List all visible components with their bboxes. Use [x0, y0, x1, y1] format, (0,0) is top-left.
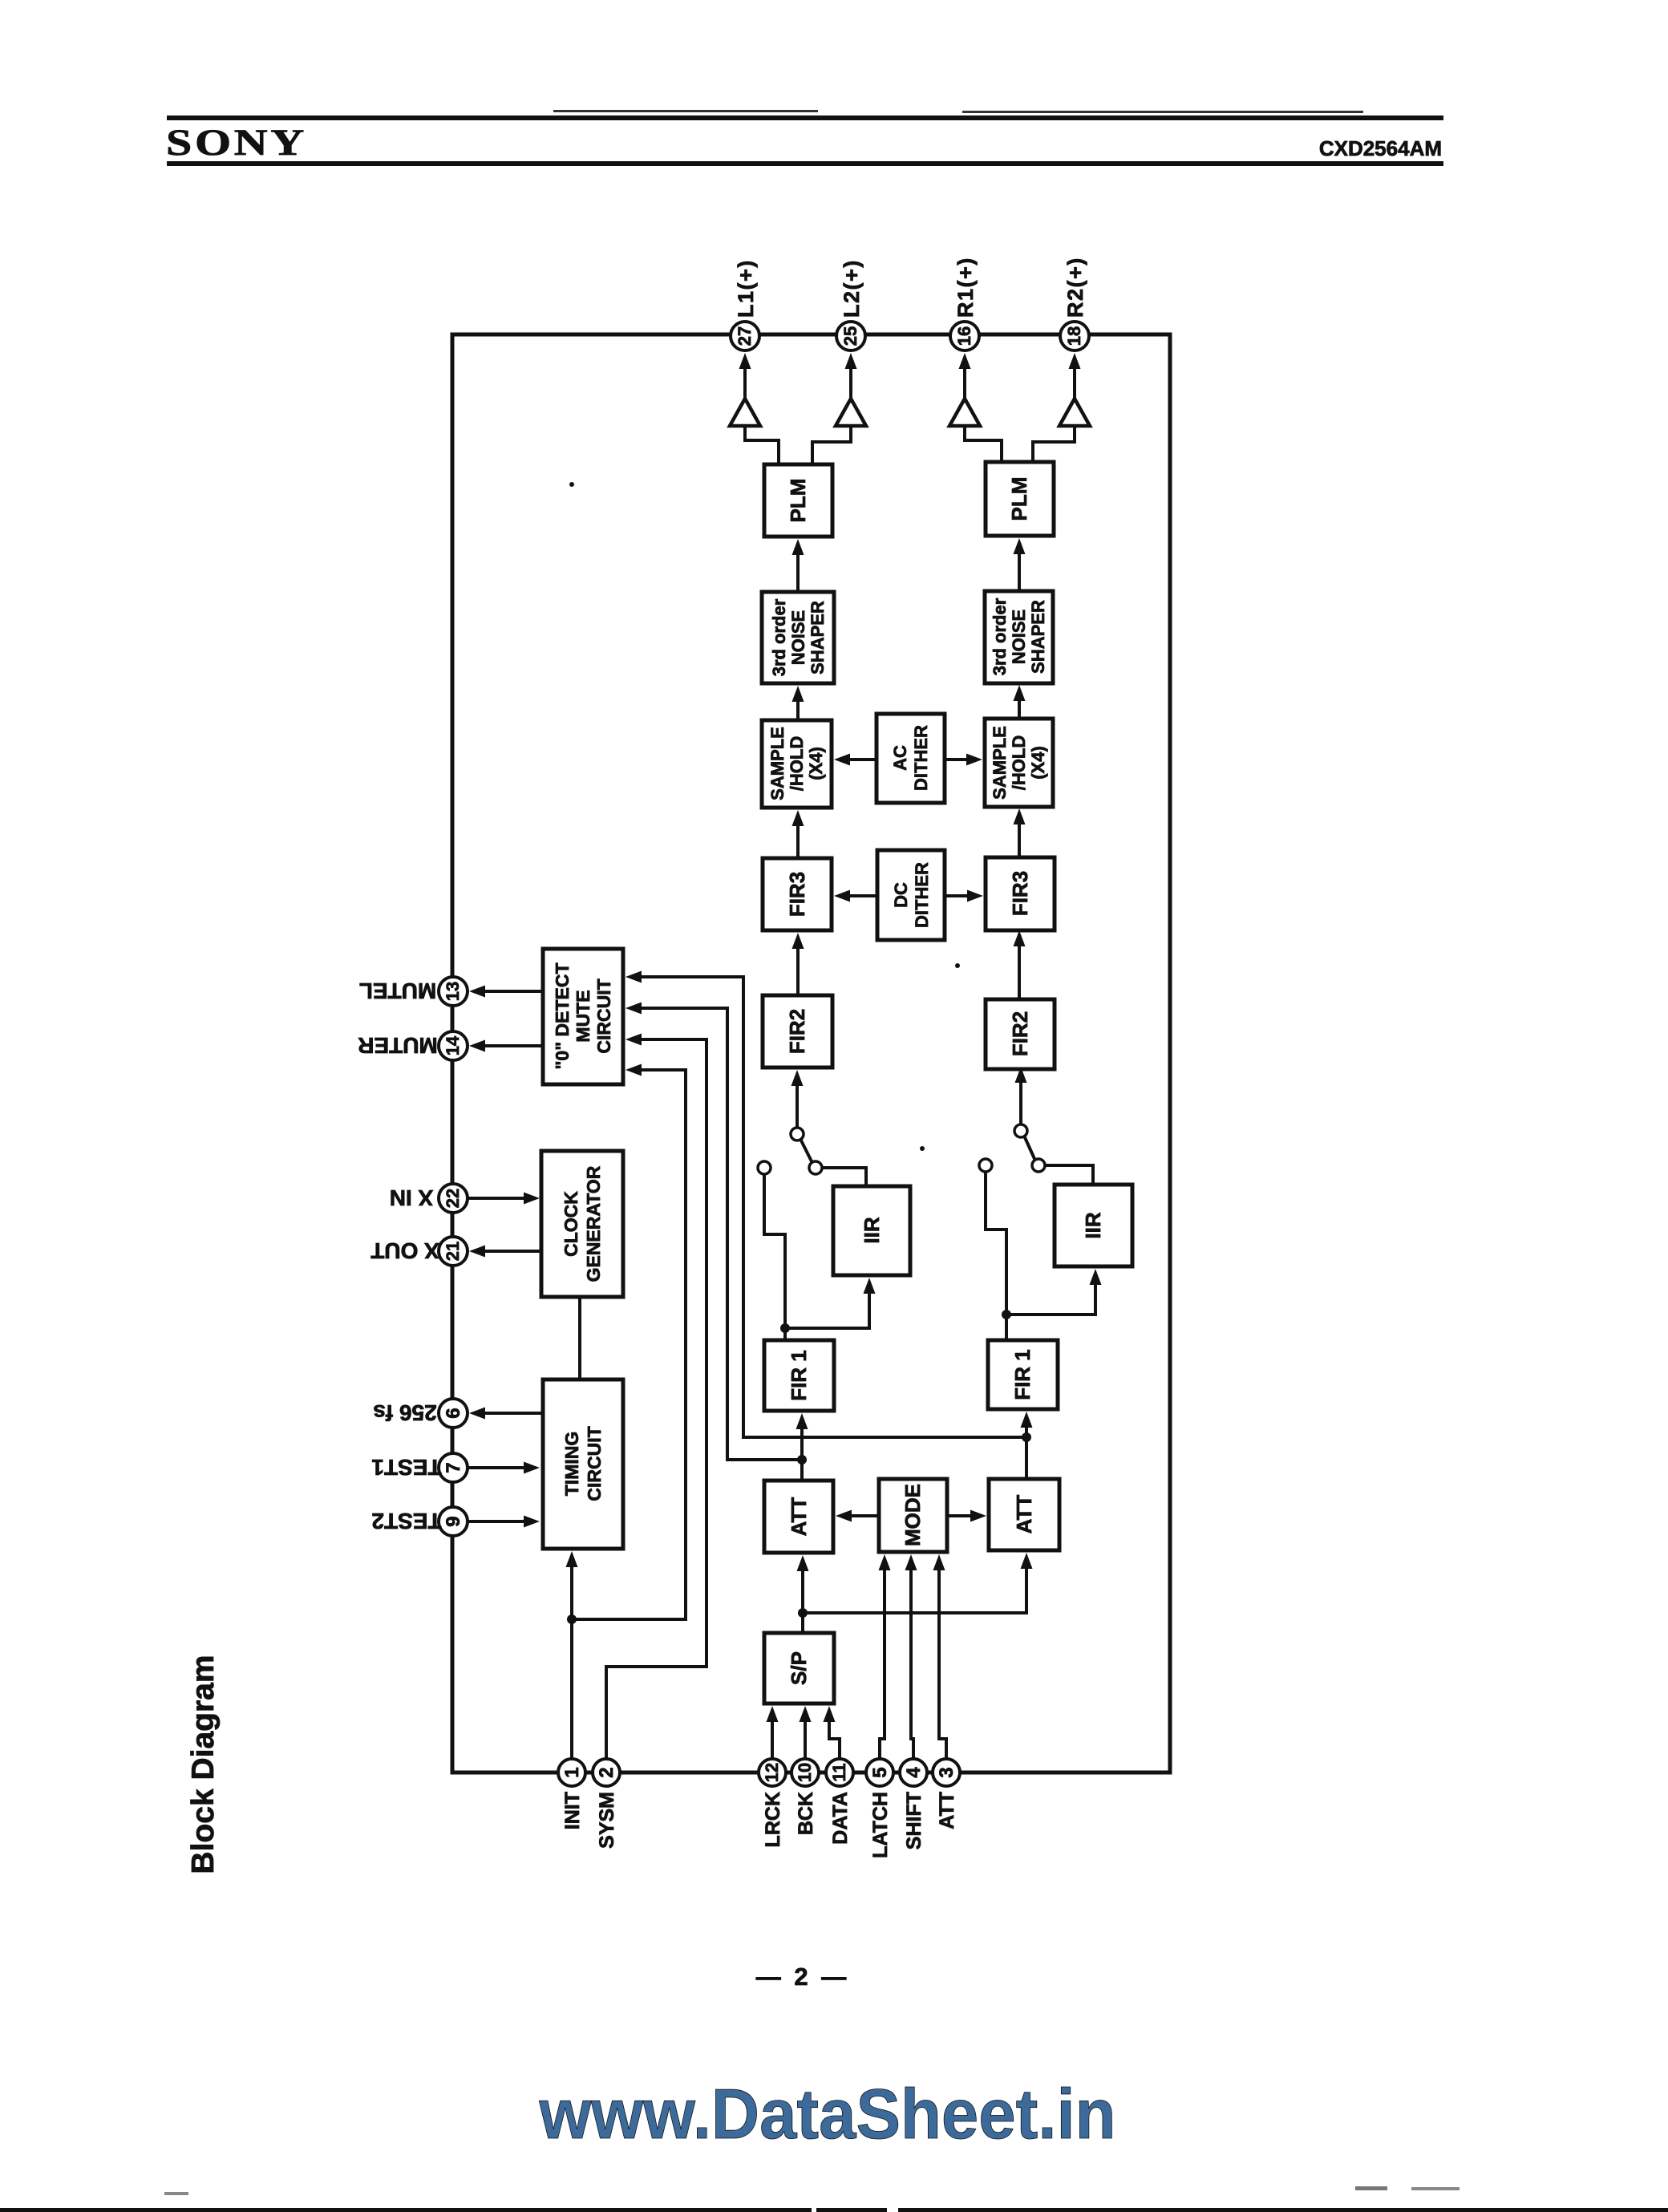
svg-text:25: 25 [840, 326, 860, 346]
svg-text:13: 13 [443, 982, 463, 1001]
svg-text:NOISE: NOISE [788, 610, 808, 665]
svg-text:16: 16 [954, 326, 974, 346]
svg-text:FIR 1: FIR 1 [787, 1350, 811, 1401]
svg-text:11: 11 [829, 1763, 849, 1781]
svg-text:SAMPLE: SAMPLE [767, 727, 787, 800]
svg-text:PLM: PLM [786, 479, 810, 523]
svg-text:X IN: X IN [390, 1185, 433, 1210]
svg-text:SHAPER: SHAPER [808, 601, 828, 675]
svg-text:5: 5 [869, 1767, 891, 1777]
svg-text:FIR3: FIR3 [785, 872, 809, 917]
svg-text:256 fs: 256 fs [373, 1400, 436, 1425]
svg-text:MUTER: MUTER [358, 1033, 438, 1058]
svg-text:22: 22 [443, 1189, 463, 1208]
svg-text:TIMING: TIMING [561, 1432, 582, 1497]
svg-text:X OUT: X OUT [370, 1238, 439, 1263]
svg-text:BCK: BCK [795, 1792, 817, 1835]
svg-text:FIR2: FIR2 [785, 1009, 809, 1054]
svg-text:FIR3: FIR3 [1008, 871, 1032, 916]
svg-text:MUTE: MUTE [573, 990, 593, 1042]
svg-text:CIRCUIT: CIRCUIT [593, 978, 614, 1053]
svg-text:3: 3 [936, 1767, 957, 1777]
svg-text:L1(+): L1(+) [734, 259, 758, 318]
svg-text:LRCK: LRCK [762, 1792, 784, 1847]
svg-text:SHIFT: SHIFT [903, 1792, 925, 1849]
svg-text:SHAPER: SHAPER [1028, 600, 1048, 674]
svg-text:DC: DC [891, 882, 911, 908]
svg-text:/HOLD: /HOLD [1009, 735, 1029, 790]
svg-text:— 2 —: — 2 — [756, 1963, 849, 1991]
svg-text:(X4): (X4) [806, 747, 826, 780]
svg-text:10: 10 [795, 1763, 815, 1782]
svg-text:14: 14 [443, 1035, 463, 1055]
svg-text:IIR: IIR [1081, 1212, 1105, 1238]
svg-text:21: 21 [443, 1242, 463, 1261]
svg-text:6: 6 [443, 1408, 464, 1418]
svg-text:R1(+): R1(+) [953, 257, 978, 318]
svg-text:ATT: ATT [936, 1792, 958, 1829]
svg-text:FIR 1: FIR 1 [1010, 1349, 1034, 1400]
svg-text:7: 7 [443, 1462, 464, 1473]
svg-text:L2(+): L2(+) [840, 259, 864, 318]
svg-text:DITHER: DITHER [912, 862, 932, 928]
svg-text:3rd order: 3rd order [990, 598, 1010, 675]
svg-text:PLM: PLM [1007, 477, 1031, 521]
svg-text:27: 27 [735, 326, 755, 346]
svg-text:ATT: ATT [787, 1497, 811, 1537]
svg-text:12: 12 [762, 1763, 782, 1782]
svg-text:R2(+): R2(+) [1063, 257, 1087, 318]
svg-text:MUTEL: MUTEL [359, 978, 436, 1003]
svg-text:3rd order: 3rd order [769, 598, 789, 676]
svg-text:DATA: DATA [829, 1792, 852, 1845]
svg-text:AC: AC [890, 745, 910, 771]
svg-text:DITHER: DITHER [911, 725, 931, 791]
svg-text:ATT: ATT [1012, 1495, 1036, 1534]
svg-text:IIR: IIR [860, 1217, 884, 1243]
svg-text:9: 9 [443, 1516, 464, 1526]
svg-text:"0" DETECT: "0" DETECT [552, 963, 573, 1070]
svg-text:(X4): (X4) [1028, 746, 1048, 780]
svg-text:CLOCK: CLOCK [561, 1191, 581, 1257]
svg-text:1: 1 [561, 1767, 583, 1777]
svg-text:CIRCUIT: CIRCUIT [584, 1426, 605, 1501]
svg-text:GENERATOR: GENERATOR [583, 1165, 604, 1282]
svg-text:TEST1: TEST1 [371, 1455, 441, 1480]
svg-text:INIT: INIT [561, 1792, 584, 1829]
svg-text:2: 2 [596, 1767, 617, 1777]
svg-text:SYSM: SYSM [596, 1792, 618, 1849]
svg-text:SAMPLE: SAMPLE [990, 726, 1010, 800]
svg-text:SONY: SONY [166, 122, 307, 164]
svg-text:NOISE: NOISE [1009, 610, 1029, 664]
svg-text:TEST2: TEST2 [371, 1509, 441, 1533]
svg-text:LATCH: LATCH [869, 1792, 892, 1858]
svg-text:S/P: S/P [787, 1651, 811, 1685]
svg-text:MODE: MODE [901, 1484, 925, 1546]
svg-text:/HOLD: /HOLD [787, 736, 807, 791]
svg-text:18: 18 [1064, 326, 1084, 346]
svg-text:4: 4 [903, 1767, 925, 1778]
svg-text:FIR2: FIR2 [1008, 1011, 1032, 1056]
svg-text:CXD2564AM: CXD2564AM [1319, 136, 1442, 160]
svg-text:www.DataSheet.in: www.DataSheet.in [539, 2074, 1116, 2153]
svg-text:Block Diagram: Block Diagram [186, 1655, 221, 1874]
